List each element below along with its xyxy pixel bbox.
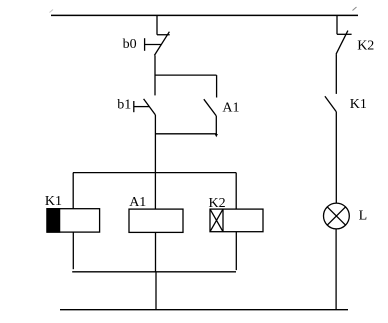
svg-text:K2: K2 [209, 196, 226, 211]
svg-text:b0: b0 [123, 37, 137, 52]
svg-text:K1: K1 [45, 194, 62, 209]
svg-text:K1: K1 [350, 97, 367, 112]
svg-text:A1: A1 [129, 195, 146, 210]
svg-text:L: L [359, 209, 368, 224]
svg-text:K2: K2 [357, 38, 374, 53]
svg-text:b1: b1 [117, 97, 131, 112]
svg-text:A1: A1 [222, 101, 239, 116]
